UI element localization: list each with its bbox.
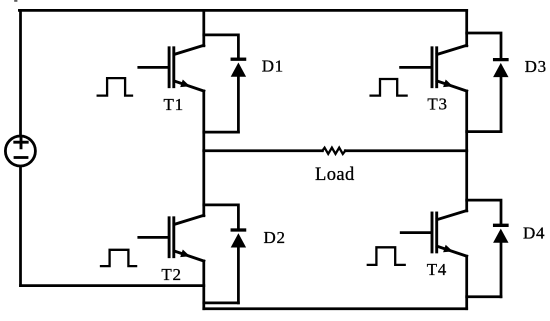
wire T2 emitter vertical xyxy=(202,261,205,309)
transistor T4 xyxy=(432,211,467,257)
wire T3 emitter vertical xyxy=(465,91,468,151)
wire T2 collector vertical xyxy=(202,151,205,216)
transistor T2 xyxy=(169,215,204,261)
wire T1 gate lead xyxy=(139,66,168,69)
wire D3 anode lead xyxy=(500,77,503,132)
wire D2 bottom branch xyxy=(204,302,239,305)
gate pulse T3 xyxy=(371,79,407,96)
wire D4 anode lead xyxy=(500,242,503,297)
stray mark top edge xyxy=(14,0,17,2)
diode D1 xyxy=(231,59,247,76)
wire T4 gate lead xyxy=(401,231,431,234)
svg-text:T3: T3 xyxy=(427,95,447,114)
resistor Load xyxy=(322,148,345,154)
gate pulse T4 xyxy=(368,247,405,265)
wire D2 anode lead xyxy=(237,247,240,303)
wire T1 emitter vertical xyxy=(202,91,205,151)
wire left rail lower xyxy=(19,167,22,286)
wire D3 top branch xyxy=(467,33,501,58)
diode D4 xyxy=(493,225,509,243)
svg-text:D1: D1 xyxy=(262,57,284,76)
wire D4 top branch xyxy=(467,200,501,223)
wire left rail upper xyxy=(19,10,22,135)
wire bottom left rail xyxy=(21,284,204,287)
wire T1 collector vertical xyxy=(202,10,205,45)
svg-text:D3: D3 xyxy=(525,57,547,76)
diode D2 xyxy=(231,230,247,248)
wire D4 bottom branch xyxy=(467,295,501,298)
wire D1 anode lead xyxy=(237,77,240,132)
transistor T3 xyxy=(432,45,467,91)
svg-text:T2: T2 xyxy=(161,265,181,284)
svg-text:T4: T4 xyxy=(427,260,447,279)
wire T4 collector vertical xyxy=(465,151,468,211)
wire T3 gate lead xyxy=(401,66,431,69)
gate pulse T2 xyxy=(101,250,136,266)
wire T4 emitter vertical xyxy=(465,256,468,309)
svg-text:D2: D2 xyxy=(264,228,286,247)
wire mid rail right segment xyxy=(345,149,466,152)
voltage source V1 xyxy=(5,136,35,166)
wire D1 bottom branch xyxy=(204,131,239,134)
svg-text:D4: D4 xyxy=(523,224,545,243)
wire T3 collector vertical xyxy=(465,10,468,45)
svg-text:Load: Load xyxy=(315,165,355,185)
wire T2 gate lead xyxy=(139,236,168,239)
wire bottom rail xyxy=(204,307,467,310)
svg-text:T1: T1 xyxy=(164,95,184,114)
wire top rail xyxy=(19,9,466,12)
gate pulse T1 xyxy=(98,78,132,96)
wire mid rail left segment xyxy=(204,149,323,152)
wire D1 top branch xyxy=(204,35,239,58)
wire D3 bottom branch xyxy=(467,130,501,133)
transistor T1 xyxy=(169,45,204,91)
diode D3 xyxy=(493,60,509,78)
wire D2 top branch xyxy=(204,205,239,228)
